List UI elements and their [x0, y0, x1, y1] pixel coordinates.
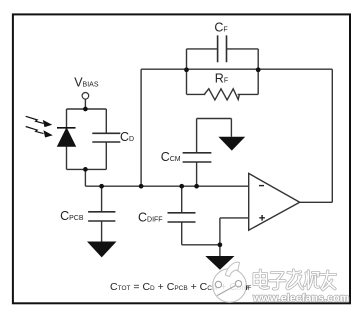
svg-text:F: F — [246, 285, 250, 292]
svg-text:www.elecfans.com: www.elecfans.com — [252, 293, 349, 305]
